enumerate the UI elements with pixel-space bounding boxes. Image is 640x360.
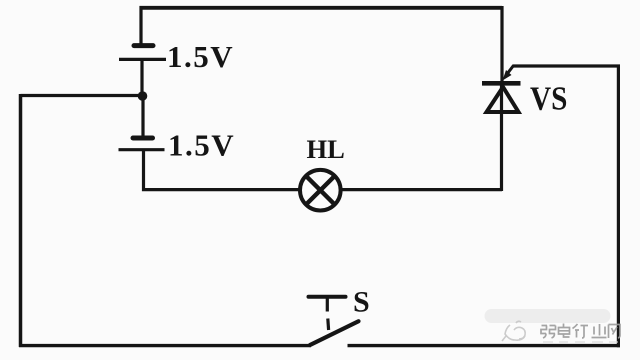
switch S blade [310, 321, 359, 345]
label VS [530, 79, 567, 117]
svg-text:S: S [353, 286, 370, 319]
wire from top-left corner down to battery cell 1 [139, 6, 142, 45]
switch S push-button link dash [326, 319, 330, 331]
lamp HL circle [300, 170, 341, 211]
junction dot (battery midpoint node) [138, 91, 148, 101]
wire through thyristor down to lamp wire [500, 85, 503, 191]
svg-text:1.5V: 1.5V [167, 39, 234, 74]
thyristor VS triangle [487, 87, 519, 112]
watermark logo 弱电行业网 [485, 309, 621, 342]
battery cell 1 (1.5V) positive long thin plate [119, 58, 166, 61]
wire top to thyristor cathode [500, 6, 503, 83]
lamp HL cross [306, 176, 335, 205]
value label 1.5V (cell 1) [167, 39, 234, 74]
thyristor VS cathode bar [482, 81, 521, 86]
wire left outer vertical [19, 94, 23, 347]
thyristor VS gate arrowhead [503, 70, 512, 81]
switch S push-button bar [309, 295, 346, 299]
label HL [307, 134, 345, 164]
battery cell 2 (1.5V) negative short thick plate [133, 136, 153, 141]
wire battery cell 2 down and right to lamp [144, 150, 300, 190]
battery cell 1 (1.5V) negative short thick plate [134, 43, 153, 48]
wire bottom left to switch [19, 344, 311, 347]
battery cell 2 (1.5V) positive long thin plate [119, 148, 165, 151]
wire top horizontal [140, 6, 503, 10]
wire thyristor gate horizontal [513, 64, 621, 67]
value label 1.5V (cell 2) [168, 128, 235, 163]
svg-text:1.5V: 1.5V [168, 128, 235, 163]
svg-text:VS: VS [530, 79, 567, 117]
wire junction to battery cell 2 [141, 96, 144, 138]
wire junction to left side [21, 94, 140, 97]
wire right outer vertical [617, 66, 620, 347]
label S [353, 286, 370, 319]
wire lamp to thyristor branch [341, 188, 502, 191]
svg-text:HL: HL [307, 134, 345, 164]
thyristor VS gate diagonal lead [506, 66, 514, 77]
wire bottom right from switch to right side [348, 344, 621, 347]
wire battery cell 1 to junction [140, 59, 143, 96]
switch S push-button stem [326, 298, 329, 312]
